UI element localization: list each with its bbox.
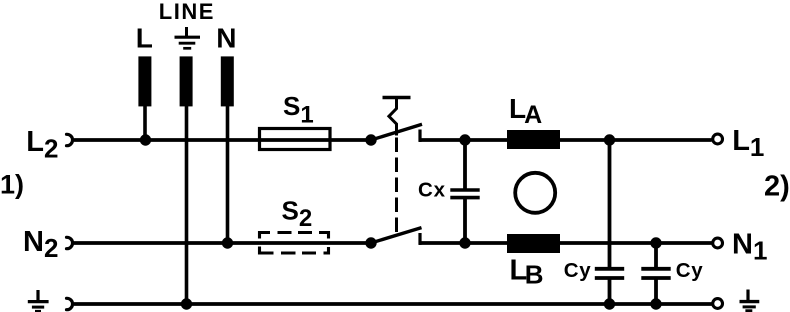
junction dot Cy-right top [650, 237, 661, 248]
terminal pin L [138, 56, 151, 106]
choke core circle [515, 173, 555, 213]
switch S actuator T-bar [383, 96, 411, 99]
ground symbol bottom-left [28, 290, 49, 311]
connector arc N2 [67, 237, 73, 248]
inductor LB [507, 234, 560, 253]
ground symbol LINE [175, 27, 201, 48]
capacitor Cy left lead bottom [608, 278, 612, 304]
wire N1 line [419, 241, 712, 245]
svg-text:L: L [136, 22, 153, 53]
wire lead pin N [226, 105, 230, 243]
junction dot Cy-right bottom [650, 298, 661, 309]
switch pole 1 blade [371, 124, 422, 140]
junction dot pin E / bus [181, 298, 192, 309]
terminal circle N1 [713, 238, 723, 248]
inductor LA [507, 130, 560, 149]
junction dot Cx top [459, 134, 470, 145]
capacitor Cy left lead top [608, 140, 612, 268]
capacitor Cx lead top [463, 140, 467, 189]
junction dot pin L / L2 [140, 134, 151, 145]
capacitor Cy right plates [641, 267, 670, 271]
ground symbol bottom-right [740, 290, 760, 311]
switch pole 2 blade [371, 228, 422, 243]
wire lead pin E [185, 105, 189, 304]
junction dot switch2 pivot [365, 237, 376, 248]
wire lead pin L [143, 105, 147, 140]
capacitor Cy left plates [595, 267, 624, 271]
junction dot Cy-left top [604, 134, 615, 145]
junction dot pin N / N2 [222, 237, 233, 248]
junction dot switch1 pivot [365, 134, 376, 145]
wire L1 line [419, 138, 712, 142]
junction dot Cy-left bottom [604, 298, 615, 309]
switch linkage (dashed) [395, 138, 398, 234]
switch pole 2 contact [418, 233, 421, 245]
connector arc ground [67, 298, 73, 309]
connector arc L2 [67, 134, 73, 145]
capacitor Cx plates [450, 188, 479, 192]
svg-text:1): 1) [0, 170, 24, 200]
wire ground bus [74, 302, 712, 306]
svg-text:Cx: Cx [418, 178, 446, 201]
switch S actuator spring [389, 98, 397, 136]
switch pole 1 contact [418, 130, 421, 142]
terminal circle L1 [713, 134, 723, 144]
junction dot Cx bottom [459, 237, 470, 248]
terminal pin N [221, 56, 234, 106]
wire N2 line [72, 241, 371, 245]
wire L2 line [74, 138, 371, 142]
terminal pin E [180, 56, 193, 106]
fuse S1 [260, 129, 331, 150]
svg-text:LB: LB [510, 255, 544, 290]
svg-text:N: N [216, 22, 236, 53]
capacitor Cy right lead top [654, 243, 658, 268]
fuse S2 (dashed) [260, 233, 329, 254]
svg-text:Cy: Cy [564, 259, 592, 282]
capacitor Cx lead bottom [463, 198, 467, 243]
terminal circle ground [713, 299, 723, 309]
svg-text:2): 2) [764, 171, 790, 203]
svg-text:Cy: Cy [676, 259, 704, 282]
svg-text:LINE: LINE [159, 0, 215, 24]
capacitor Cy right lead bottom [654, 278, 658, 304]
